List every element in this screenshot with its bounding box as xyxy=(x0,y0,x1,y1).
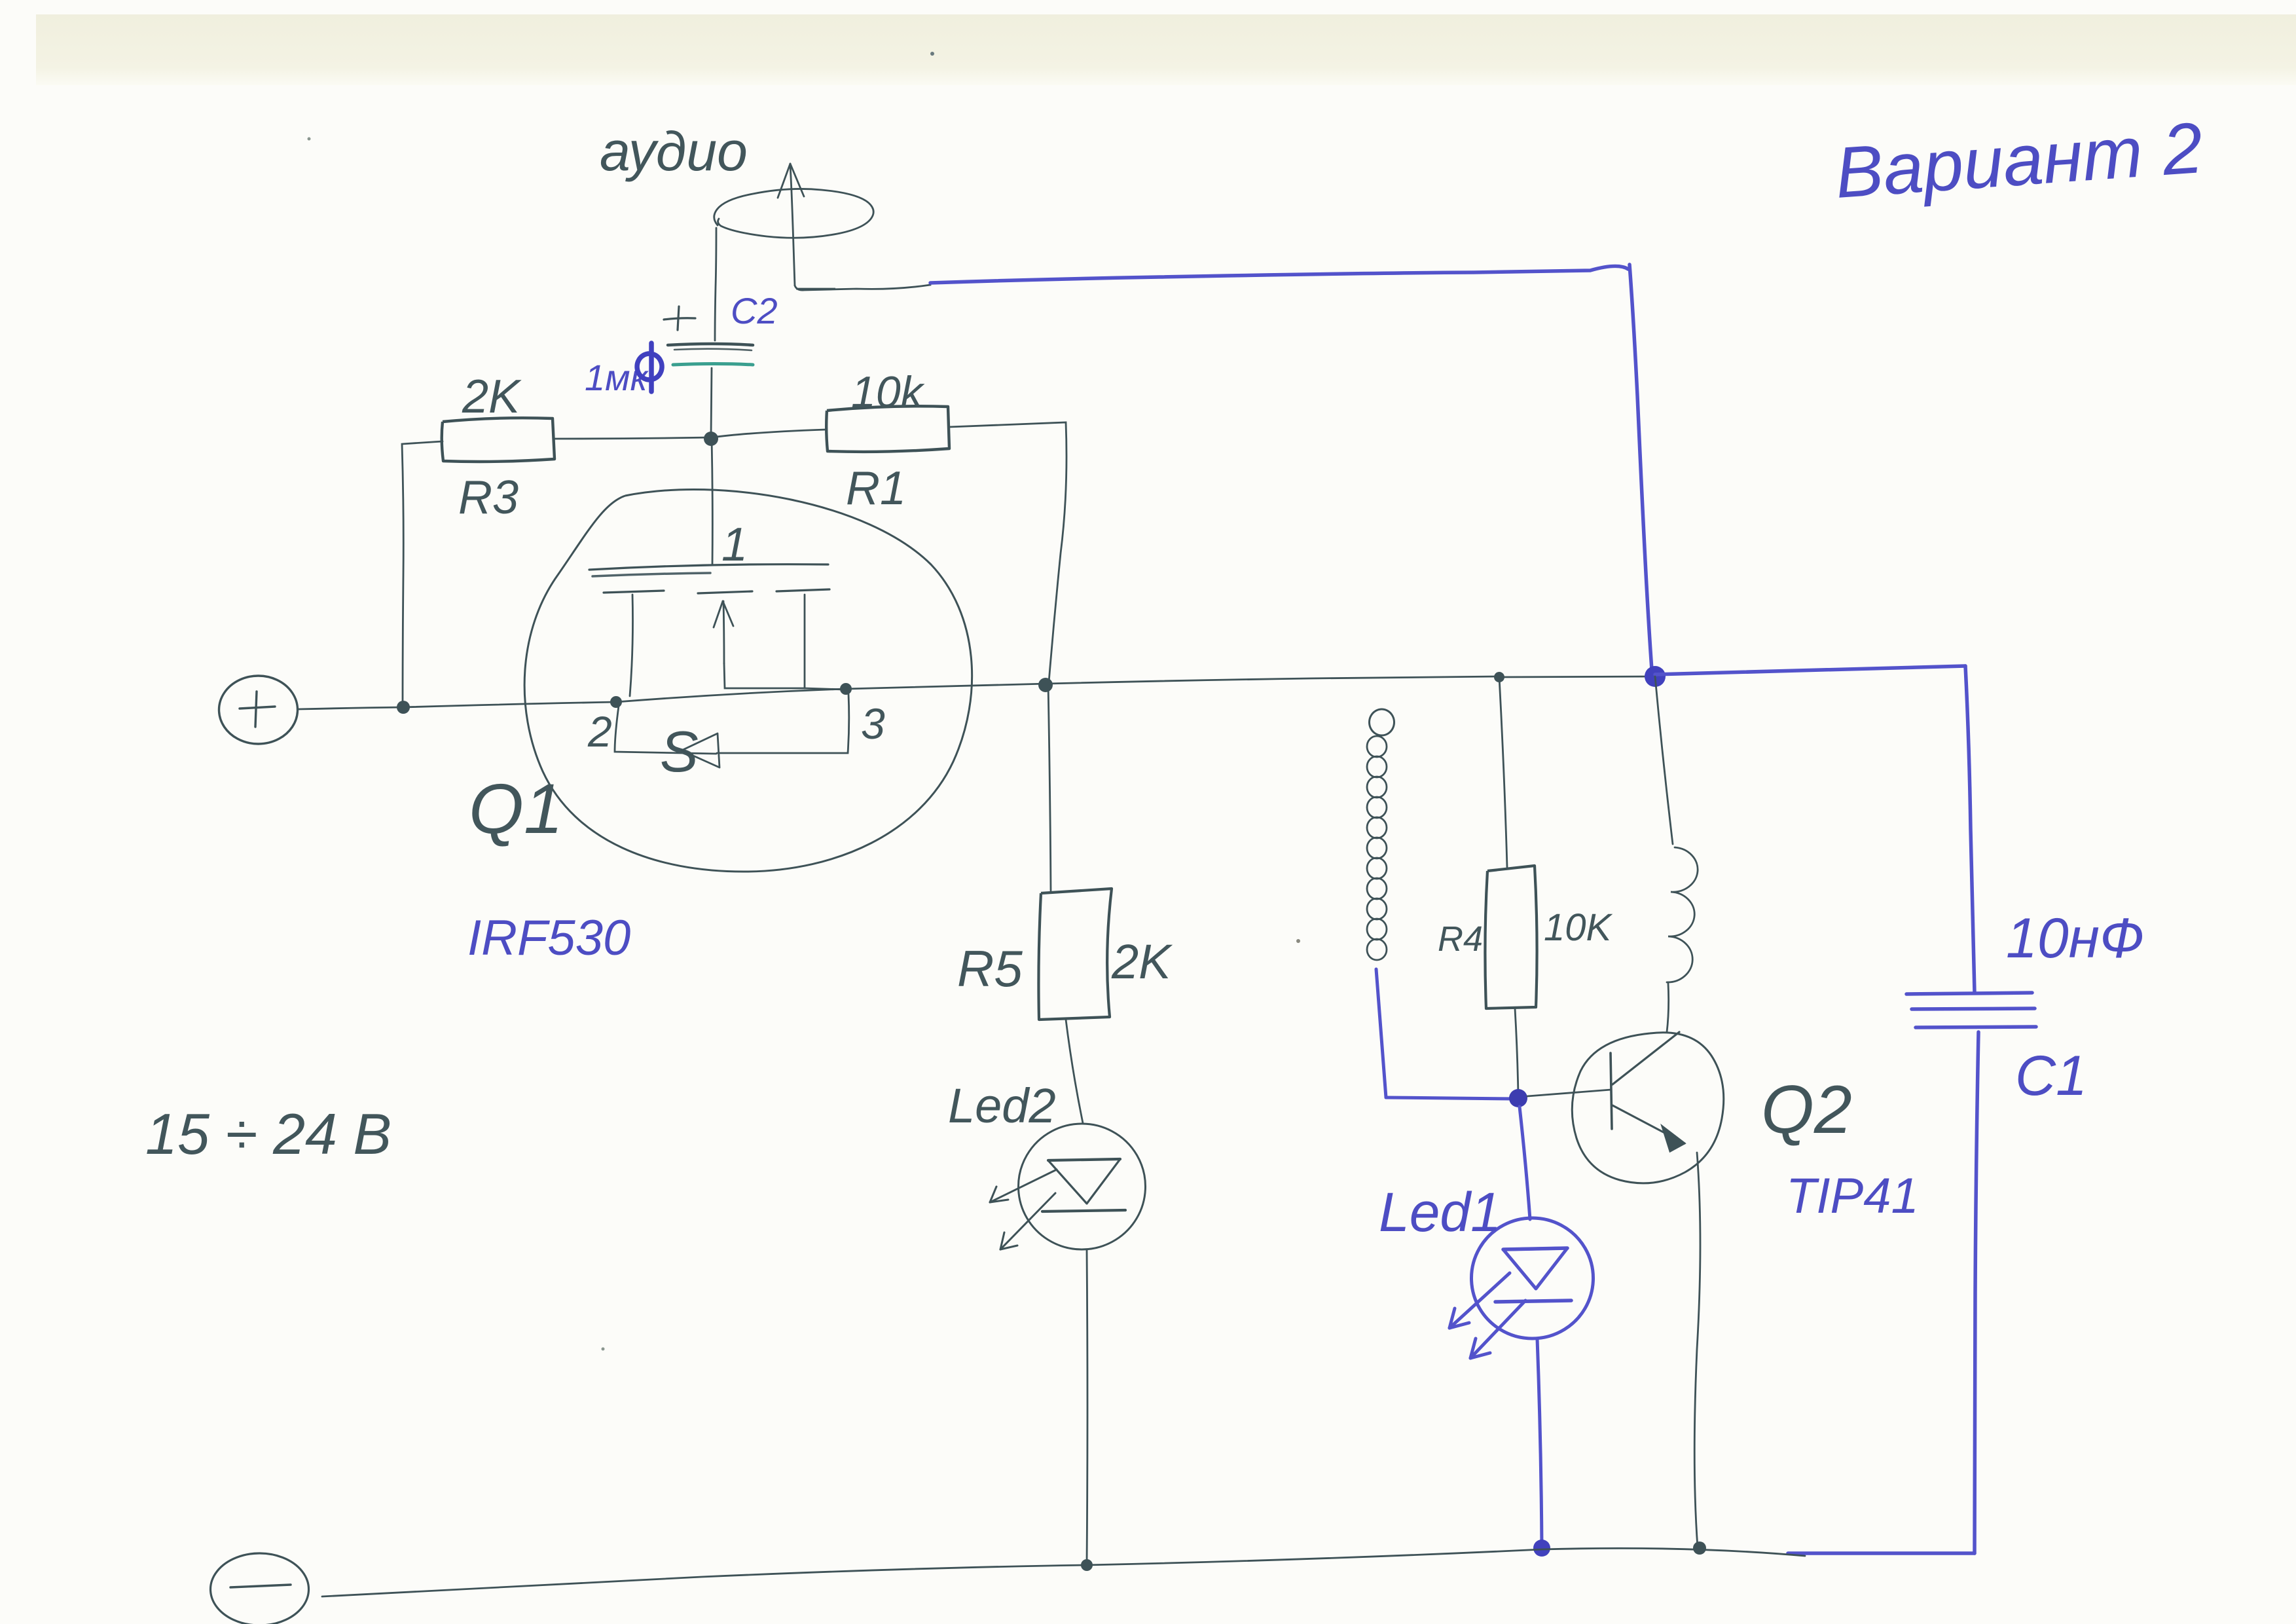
node pin2 xyxy=(610,696,622,708)
paper speck xyxy=(602,1348,605,1351)
svg-text:Q1: Q1 xyxy=(469,769,563,848)
wire antenna blue to base node xyxy=(1386,1098,1517,1099)
wire rail R4node to blue node xyxy=(1499,676,1655,677)
wire blue top rail xyxy=(930,266,1628,283)
node C2/R3/R1/gate junction xyxy=(704,432,718,446)
svg-text:TIP41: TIP41 xyxy=(1786,1168,1919,1224)
svg-text:10нФ: 10нФ xyxy=(2006,907,2144,970)
Led2 cathode bar xyxy=(1042,1210,1125,1211)
svg-text:R1: R1 xyxy=(846,462,906,515)
resistor R4 xyxy=(1485,866,1537,1008)
svg-text:C2: C2 xyxy=(731,290,778,331)
svg-text:2K: 2K xyxy=(462,371,522,423)
Led2 triangle xyxy=(1048,1159,1120,1204)
inductor L2 xyxy=(1667,847,1698,982)
capacitor C2 lead bottom xyxy=(711,368,712,436)
Led1 emission arrows xyxy=(1449,1273,1525,1358)
node pin3 xyxy=(840,683,852,695)
Led1 anode bar xyxy=(1503,1248,1567,1249)
capacitor C2 plate top xyxy=(668,344,753,345)
wire R3 left lead down xyxy=(402,441,443,706)
svg-text:3: 3 xyxy=(861,699,885,748)
wire R4 to base node xyxy=(1515,1008,1518,1096)
paper speck xyxy=(1296,939,1300,943)
capacitor C1 plate top xyxy=(1906,993,2032,994)
svg-text:IRF530: IRF530 xyxy=(467,910,630,966)
svg-text:аудио: аудио xyxy=(600,120,748,182)
node Led1 bottom xyxy=(1533,1540,1550,1557)
svg-text:C1: C1 xyxy=(2015,1044,2087,1107)
Led1 cathode bar xyxy=(1495,1301,1571,1302)
svg-text:Led1: Led1 xyxy=(1379,1181,1501,1243)
node Led2 bottom xyxy=(1081,1559,1093,1571)
terminal minus xyxy=(211,1553,309,1624)
terminal plus xyxy=(219,676,298,744)
Q2 collector stroke xyxy=(1613,1032,1679,1084)
wire L2 to Q2 collector xyxy=(1667,984,1669,1032)
wire node to R4 xyxy=(1499,677,1507,867)
LED Led2 circle xyxy=(1019,1124,1146,1249)
wire Q1 gate lead (pin1) xyxy=(712,437,712,564)
Q2 base bar xyxy=(1611,1053,1612,1129)
wire bottom rail xyxy=(322,1548,1805,1596)
svg-text:Led2: Led2 xyxy=(948,1079,1056,1133)
antenna coil xyxy=(1367,736,1387,960)
LED Led1 circle xyxy=(1472,1218,1594,1338)
Q1 body to source link xyxy=(724,663,805,688)
paper speck xyxy=(930,52,934,56)
wire blue right drop xyxy=(1630,265,1652,678)
svg-text:R5: R5 xyxy=(957,940,1023,997)
wire blue rail to C1 corner xyxy=(1655,666,1965,674)
svg-text:2: 2 xyxy=(587,707,612,756)
Q2 emitter stroke with arrow xyxy=(1613,1105,1685,1143)
svg-text:1: 1 xyxy=(721,519,748,571)
Led1 triangle xyxy=(1503,1248,1567,1289)
svg-text:10k: 10k xyxy=(851,367,925,417)
capacitor C2 lead top xyxy=(715,228,716,341)
wire audio out to blue xyxy=(795,283,930,290)
Q1 drain lead (pin2 side) xyxy=(630,595,633,696)
Q1 gate bar xyxy=(589,564,828,570)
Led2 emission arrows xyxy=(990,1170,1057,1249)
antenna terminal circle xyxy=(1370,709,1394,735)
node R3 branch xyxy=(397,701,410,714)
svg-text:S: S xyxy=(660,719,699,784)
transistor Q1 outline circle xyxy=(524,489,972,872)
Q1 channel bars xyxy=(604,591,664,593)
wire C1 bottom xyxy=(1975,1032,1978,1553)
svg-text:15 ÷ 24 В: 15 ÷ 24 В xyxy=(145,1101,392,1166)
wire R1 right lead down xyxy=(949,422,1066,682)
wire node to R1 xyxy=(712,430,826,437)
resistor R1 xyxy=(826,406,949,452)
wire main rail mid xyxy=(616,689,846,702)
wire base node to Led1 xyxy=(1520,1107,1530,1219)
wire R5 to Led2 xyxy=(1066,1020,1083,1123)
scanner band top xyxy=(36,14,2296,85)
wire audio arrow xyxy=(778,164,804,286)
svg-text:2K: 2K xyxy=(1111,934,1173,989)
svg-text:R4: R4 xyxy=(1438,919,1483,959)
svg-text:R3: R3 xyxy=(458,471,519,524)
wire base node to Q2 xyxy=(1527,1090,1611,1096)
Q1 source lead (pin3 side) xyxy=(804,595,806,688)
capacitor C2 plate bottom teal xyxy=(673,364,753,365)
wire C1 bottom to rail xyxy=(1788,1551,1975,1555)
Led2 anode bar xyxy=(1048,1159,1120,1160)
wire plus to rail xyxy=(298,707,403,709)
wire Led2 to bottom rail xyxy=(1087,1249,1087,1564)
wire blue node to L2 xyxy=(1655,676,1673,844)
node blue tank junction xyxy=(1645,666,1666,687)
wire node to R5 xyxy=(1048,684,1051,891)
wire Led1 to bottom xyxy=(1537,1338,1542,1548)
svg-text:Q2: Q2 xyxy=(1761,1072,1852,1148)
transistor Q2 circle xyxy=(1572,1033,1724,1183)
wire R3 right to node xyxy=(555,437,710,439)
wire Q2 emitter down xyxy=(1694,1153,1700,1547)
capacitor C2 plus sign xyxy=(664,306,695,330)
resistor R3 xyxy=(442,418,555,462)
capacitor C1 plate bottom xyxy=(1916,1027,2036,1027)
Q1 body arrow up xyxy=(723,601,724,663)
resistor R5 xyxy=(1038,889,1112,1020)
node base junction xyxy=(1509,1089,1527,1107)
wire main rail right xyxy=(846,676,1499,689)
node R4 branch xyxy=(1494,672,1504,682)
node R5 branch xyxy=(1038,678,1053,692)
svg-text:10K: 10K xyxy=(1544,906,1613,949)
wire main rail left xyxy=(403,702,616,707)
Q1 substrate loop wire xyxy=(615,706,716,754)
wire antenna blue down xyxy=(1376,969,1386,1098)
Q1 substrate triangle xyxy=(682,733,720,767)
node Q2 emitter bottom xyxy=(1693,1541,1706,1555)
loop ellipse pickup xyxy=(714,189,873,238)
paper speck xyxy=(308,138,311,141)
